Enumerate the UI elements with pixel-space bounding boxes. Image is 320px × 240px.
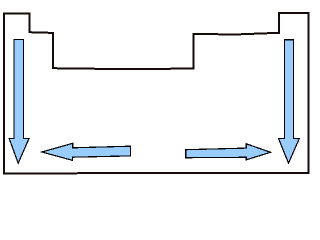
left downward trend arrow bbox=[9, 40, 29, 164]
right-pointing arrow bbox=[186, 144, 271, 160]
left-pointing arrow bbox=[42, 143, 131, 160]
right down arrow bbox=[279, 40, 300, 163]
periodic table outline bbox=[4, 13, 309, 173]
